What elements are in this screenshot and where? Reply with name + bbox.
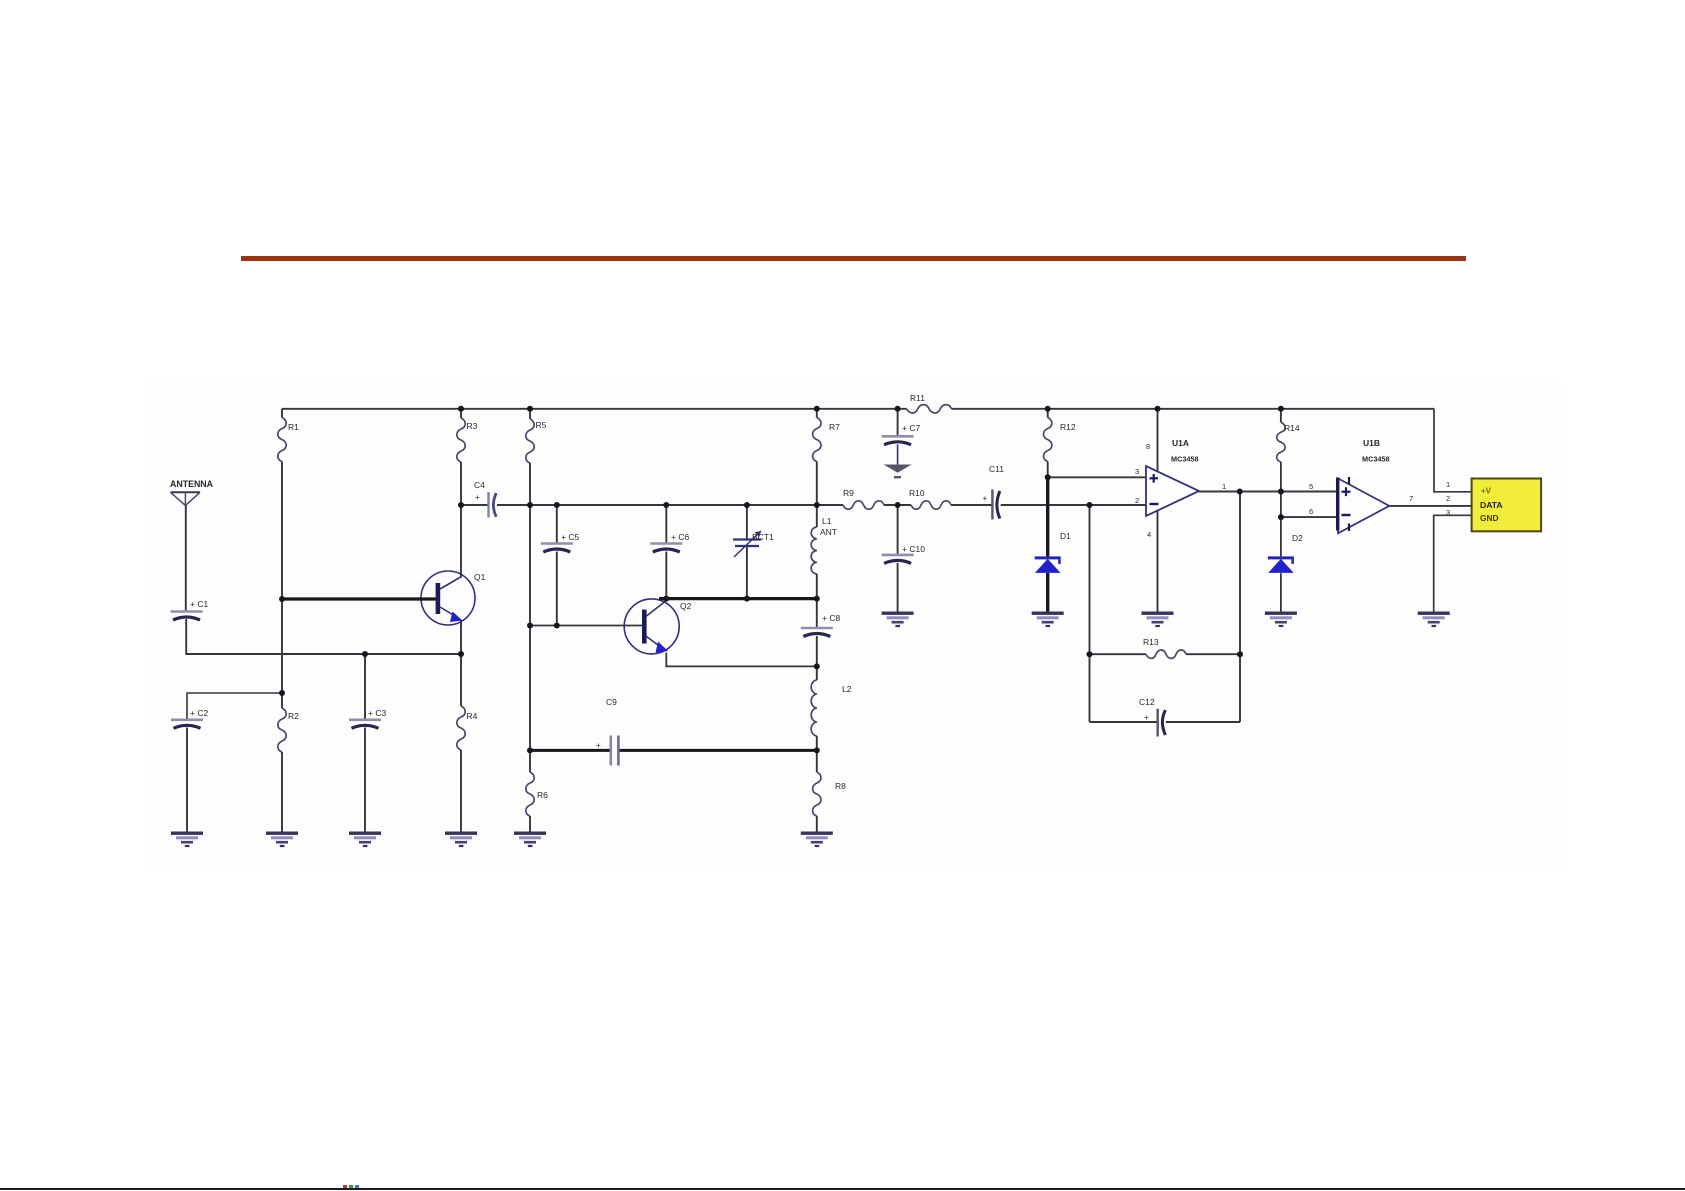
wire: R6 to ground	[529, 816, 531, 832]
svg-text:+: +	[983, 494, 988, 503]
svg-text:R12: R12	[1060, 422, 1076, 432]
inductor L1	[811, 527, 817, 574]
svg-text:2: 2	[1135, 496, 1139, 505]
diode D2	[1268, 556, 1294, 559]
ground (C3)	[349, 832, 381, 835]
ground (U1A)	[1142, 612, 1174, 615]
wire: node to U1A pin 3	[1048, 476, 1146, 478]
svg-text:C9: C9	[606, 697, 617, 707]
svg-text:+ C2: + C2	[190, 708, 208, 718]
wire: mid signal net	[497, 504, 843, 506]
resistor R9	[843, 501, 884, 509]
wire: loop right vertical	[1239, 492, 1241, 723]
svg-text:L2: L2	[842, 684, 852, 694]
svg-text:D1: D1	[1060, 531, 1071, 541]
wire: connector pin 3	[1434, 515, 1472, 612]
ground (C10)	[882, 612, 914, 615]
capacitor C6	[665, 505, 667, 544]
junction node (666.3,505)	[663, 502, 669, 508]
svg-text:R5: R5	[536, 420, 547, 430]
schematic background	[146, 378, 1561, 872]
resistor R12	[1047, 409, 1049, 418]
wire: R7 to L1	[816, 462, 818, 528]
resistor R2	[278, 708, 286, 752]
capacitor C7	[897, 409, 899, 437]
svg-text:MC3458: MC3458	[1171, 455, 1199, 464]
transistor Q1	[421, 571, 475, 625]
svg-text:+: +	[1144, 713, 1149, 722]
svg-text:R3: R3	[467, 421, 478, 431]
svg-text:+ C3: + C3	[368, 708, 386, 718]
wire: Q2 base	[530, 625, 642, 627]
resistor R7	[816, 409, 818, 418]
chassis ground (C7)	[884, 465, 912, 473]
ground (connector)	[1418, 612, 1450, 615]
ground (R2)	[266, 832, 298, 835]
resistor R4	[457, 706, 465, 750]
junction node (1157.5,408.8)	[1155, 406, 1161, 412]
junction node (746.9,598.6)	[744, 596, 750, 602]
svg-text:8: 8	[1146, 442, 1150, 451]
wire: collector to C4	[461, 504, 488, 506]
svg-text:C4: C4	[474, 480, 485, 490]
svg-text:Q1: Q1	[474, 572, 486, 582]
wire: D1 to ground (thick)	[1046, 573, 1049, 612]
junction node (530,750.4)	[527, 747, 533, 753]
capacitor C4	[487, 492, 489, 518]
op-amp U1B	[1338, 478, 1389, 533]
svg-text:R13: R13	[1143, 637, 1159, 647]
junction node (1047.7,477.3)	[1045, 474, 1051, 480]
resistor R5	[529, 409, 531, 419]
svg-text:1: 1	[1222, 482, 1226, 491]
wire: Q1 emitter net	[186, 653, 461, 655]
svg-text:+ C1: + C1	[190, 599, 208, 609]
svg-text:R11: R11	[910, 393, 925, 403]
junction node (461,505)	[458, 502, 464, 508]
junction node (1280.9,408.8)	[1278, 406, 1284, 412]
junction node (816.8,598.6)	[814, 596, 820, 602]
wire: U1A pin 8 from rail	[1157, 409, 1159, 471]
junction node (1239.7,491.5)	[1237, 489, 1243, 495]
svg-text:DATA: DATA	[1480, 500, 1503, 510]
wire: C1 to emitter line	[185, 619, 187, 655]
wire: R1 to R2 vertical	[281, 462, 283, 709]
svg-text:MC3458: MC3458	[1362, 455, 1390, 464]
svg-text:3: 3	[1446, 508, 1450, 517]
svg-text:+: +	[475, 493, 480, 502]
junction node (746.9,505)	[744, 502, 750, 508]
resistor R13	[1090, 653, 1147, 655]
svg-text:R1: R1	[288, 422, 299, 432]
junction node (1089.5,654.2)	[1087, 651, 1093, 657]
title underline rule	[241, 256, 1466, 261]
wire: Q1 emitter to R4	[460, 620, 462, 706]
wire: R14 vertical	[1280, 462, 1282, 556]
junction node (282,693)	[279, 690, 285, 696]
wire: rail corner to connector pin 1	[1434, 409, 1472, 492]
svg-text:U1B: U1B	[1363, 438, 1380, 448]
resistor R11	[907, 405, 952, 413]
capacitor C11	[991, 490, 993, 520]
junction node (556.8,505)	[554, 502, 560, 508]
junction node (530,625.5)	[527, 623, 533, 629]
junction node (365,654)	[362, 651, 368, 657]
svg-text:+ C8: + C8	[822, 613, 840, 623]
wire: D2 to ground	[1280, 573, 1282, 612]
resistor R14	[1280, 409, 1282, 423]
svg-text:4: 4	[1147, 530, 1151, 539]
junction node (556.8,625.5)	[554, 623, 560, 629]
wire: Q2 emitter	[666, 653, 817, 667]
svg-text:L1: L1	[822, 516, 832, 526]
wire: C3 from emitter net	[364, 654, 366, 720]
svg-text:+V: +V	[1481, 487, 1492, 496]
footer rule	[0, 1188, 1685, 1191]
junction node (461,408.8)	[458, 406, 464, 412]
junction node (666.3,598.6)	[663, 596, 669, 602]
wire: C3 to ground	[364, 728, 366, 833]
wire: node to D1 (thick)	[1046, 477, 1049, 556]
junction node (816.8,666.4)	[814, 663, 820, 669]
junction node (1047.7,408.8)	[1045, 406, 1051, 412]
junction node (897.6,408.8)	[895, 406, 901, 412]
svg-text:+ C5: + C5	[561, 532, 579, 542]
svg-text:BCT1: BCT1	[752, 532, 774, 542]
ground (R8)	[801, 832, 833, 835]
wire: R4 to ground	[460, 750, 462, 832]
svg-text:U1A: U1A	[1172, 438, 1189, 448]
wire: to U1B pin 6	[1281, 516, 1338, 518]
wire: U1A output	[1199, 491, 1338, 493]
svg-text:3: 3	[1135, 467, 1139, 476]
svg-text:+: +	[596, 741, 601, 750]
junction node (461,654)	[458, 651, 464, 657]
ground (D2)	[1265, 612, 1297, 615]
svg-text:R14: R14	[1284, 423, 1300, 433]
wire: antenna down to C1	[185, 506, 187, 612]
svg-text:ANTENNA: ANTENNA	[170, 479, 214, 489]
svg-text:R9: R9	[843, 488, 854, 498]
wire: R2 to ground	[281, 752, 283, 832]
junction node (816.8,408.8)	[814, 406, 820, 412]
resistor R1	[281, 409, 283, 418]
svg-text:R6: R6	[537, 790, 548, 800]
svg-text:7: 7	[1409, 494, 1413, 503]
capacitor C2	[171, 718, 203, 721]
svg-text:C11: C11	[989, 464, 1004, 474]
resistor R10	[911, 501, 951, 509]
resistor R3	[460, 409, 462, 418]
wire: C9 net (thick)	[530, 749, 610, 752]
junction node (282,599)	[279, 596, 285, 602]
svg-text:C12: C12	[1139, 697, 1155, 707]
svg-text:+ C7: + C7	[902, 423, 920, 433]
diode D1	[1035, 556, 1061, 559]
junction node (816.8,750.4)	[814, 747, 820, 753]
capacitor C1	[171, 610, 203, 613]
svg-text:R7: R7	[829, 422, 840, 432]
junction node (1280.9,491.5)	[1278, 489, 1284, 495]
svg-text:D2: D2	[1292, 533, 1303, 543]
svg-text:6: 6	[1309, 507, 1313, 516]
svg-text:Q2: Q2	[680, 601, 692, 611]
capacitor C10	[897, 505, 899, 555]
capacitor C3	[349, 718, 381, 721]
svg-text:R4: R4	[467, 711, 478, 721]
junction node (1280.9,517.1)	[1278, 514, 1284, 520]
junction node (816.8,505)	[814, 502, 820, 508]
connector J1 output box	[1472, 479, 1542, 532]
wire: +V top rail	[282, 408, 907, 410]
capacitor C9	[609, 736, 612, 766]
transistor Q2	[624, 599, 679, 654]
junction node (897.6,505)	[895, 502, 901, 508]
svg-text:R8: R8	[835, 781, 846, 791]
junction node (530,408.8)	[527, 406, 533, 412]
wire: U1A pin 4 to ground	[1157, 511, 1159, 612]
inductor L2	[816, 666, 818, 680]
junction node (530,505)	[527, 502, 533, 508]
svg-text:R2: R2	[288, 711, 299, 721]
junction node (1089.5,505)	[1087, 502, 1093, 508]
wire: U1B output	[1389, 505, 1471, 507]
ground (C2)	[171, 832, 203, 835]
svg-text:+ C10: + C10	[902, 544, 925, 554]
capacitor C12	[1090, 721, 1158, 723]
ground (D1)	[1032, 612, 1064, 615]
resistor R6	[529, 750, 531, 772]
wire: R3 to Q1 collector	[460, 462, 462, 578]
wire: Q1 base (thick)	[282, 597, 436, 600]
wire: R5 vertical	[529, 463, 531, 750]
svg-text:2: 2	[1446, 494, 1450, 503]
svg-text:ANT: ANT	[820, 527, 837, 537]
antenna symbol	[171, 491, 201, 493]
junction node (1240,654.2)	[1237, 651, 1243, 657]
svg-text:GND: GND	[1480, 513, 1498, 523]
trimmer capacitor BCT1	[746, 505, 748, 540]
wire: L1 to collector net	[816, 574, 818, 599]
wire: Q2 collector (thick)	[659, 597, 817, 600]
wire: loop left vertical	[1089, 505, 1091, 722]
ground (R4)	[445, 832, 477, 835]
svg-text:R10: R10	[909, 488, 925, 498]
svg-text:+ C6: + C6	[671, 532, 689, 542]
wire: C2 stub	[187, 693, 282, 720]
svg-text:5: 5	[1309, 482, 1313, 491]
wire: R12 to node	[1047, 462, 1049, 478]
wire: C2 to ground	[186, 728, 188, 833]
ground (R6)	[514, 832, 546, 835]
svg-text:1: 1	[1446, 480, 1450, 489]
op-amp U1A	[1146, 466, 1199, 516]
resistor R8	[816, 750, 818, 772]
capacitor C8	[816, 599, 818, 628]
wire: R8 to ground	[816, 816, 818, 832]
capacitor C5	[556, 505, 558, 544]
